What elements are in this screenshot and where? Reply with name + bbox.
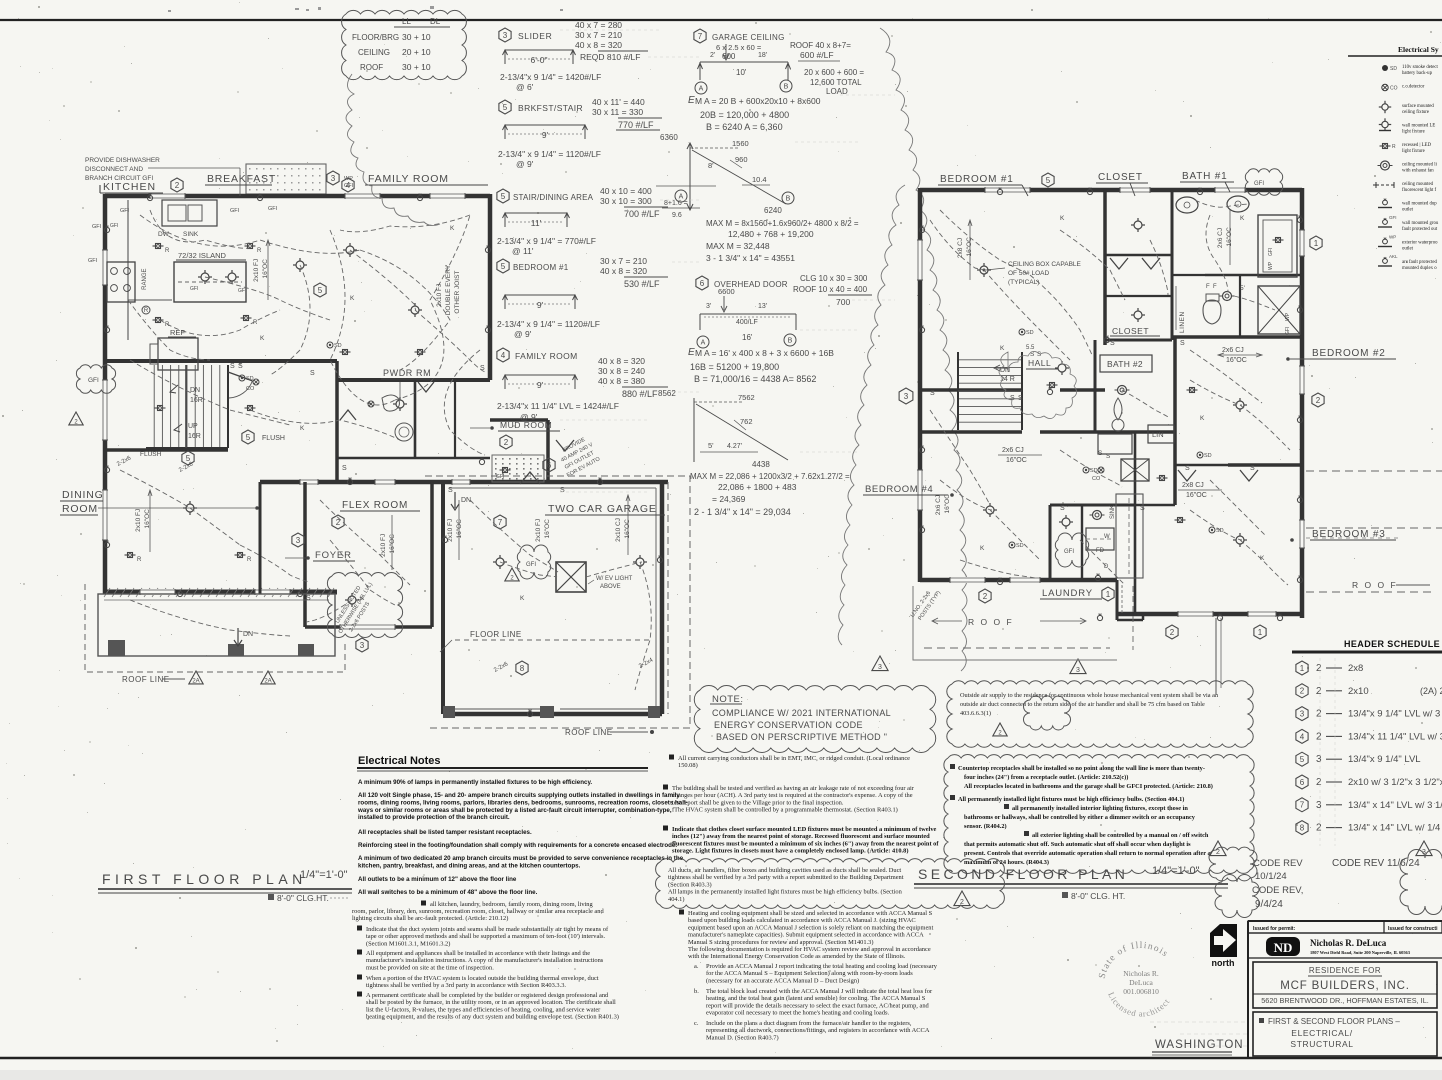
laundry closet dashed — [1116, 494, 1143, 578]
svg-text:Nicholas R. DeLuca: Nicholas R. DeLuca — [1310, 938, 1387, 948]
svg-text:GFI: GFI — [496, 474, 504, 480]
code rev cloud small 1 — [1209, 847, 1257, 881]
svg-text:for the ACCA Manual S – Equipm: for the ACCA Manual S – Equipment Select… — [706, 970, 913, 977]
svg-text:16"OC: 16"OC — [1226, 357, 1247, 364]
svg-text:BREAKFAST: BREAKFAST — [207, 173, 276, 185]
svg-text:LAUNDRY: LAUNDRY — [1042, 588, 1093, 599]
svg-text:All ducts, air handlers, filte: All ducts, air handlers, filter boxes an… — [668, 867, 901, 874]
svg-text:40 x 11' = 440: 40 x 11' = 440 — [592, 97, 645, 107]
svg-text:880 #/LF: 880 #/LF — [622, 389, 658, 399]
elec note L8 — [421, 901, 426, 906]
svg-text:@ 11': @ 11' — [512, 246, 534, 256]
svg-text:HEADER SCHEDULE: HEADER SCHEDULE — [1344, 639, 1440, 649]
title block outer frame — [1247, 921, 1249, 1058]
svg-text:ENERGY CONSERVATION CODE: ENERGY CONSERVATION CODE — [714, 720, 863, 730]
svg-text:2: 2 — [1170, 628, 1175, 637]
cloud code rev right — [1400, 850, 1442, 915]
svg-text:BEDROOM #1: BEDROOM #1 — [940, 174, 1014, 185]
svg-text:A permanent certificate shall: A permanent certificate shall be complet… — [366, 992, 609, 999]
extra wires second floor — [940, 210, 1030, 275]
svg-text:BEDROOM #1: BEDROOM #1 — [513, 263, 569, 272]
bath1 joist note — [1217, 227, 1233, 248]
laundry fixtures — [1093, 511, 1102, 520]
svg-text:6: 6 — [547, 461, 552, 470]
elec note R2 — [663, 785, 668, 790]
svg-text:1/4"=1'-0": 1/4"=1'-0" — [1152, 865, 1200, 877]
svg-text:shall be posted by the furnace: shall be posted by the furnace, in the u… — [366, 999, 616, 1006]
second floor: outer left wall — [918, 188, 923, 582]
legend symbol: ceiling mounted — [1376, 184, 1394, 186]
svg-text:3: 3 — [331, 174, 336, 183]
hex 2 right — [1312, 393, 1324, 407]
svg-text:4: 4 — [346, 181, 351, 190]
sd co symbols near stairs — [239, 375, 245, 381]
svg-text:light fixture: light fixture — [1402, 130, 1425, 135]
svg-text:All 120 volt Single phase, 15-: All 120 volt Single phase, 15- and 20- a… — [358, 792, 680, 799]
svg-text:All receptacles shall be liste: All receptacles shall be listed tamper r… — [358, 829, 532, 836]
first floor: stair lower wall — [105, 448, 228, 452]
svg-text:GFI: GFI — [526, 562, 536, 568]
svg-text:6'-0": 6'-0" — [531, 55, 548, 65]
svg-text:WP: WP — [1285, 312, 1291, 321]
svg-text:8: 8 — [1300, 823, 1305, 832]
svg-text:S: S — [1010, 395, 1015, 402]
north arrow block — [1210, 924, 1237, 957]
hex 2 mud room — [500, 435, 512, 449]
svg-text:6600: 6600 — [718, 287, 735, 296]
svg-text:CO: CO — [1092, 476, 1101, 482]
svg-text:CEILING BOX CAPABLE: CEILING BOX CAPABLE — [1008, 261, 1082, 268]
svg-text:Countertop receptacles shall b: Countertop receptacles shall be installe… — [958, 765, 1205, 772]
svg-text:DOUBLE EVERY: DOUBLE EVERY — [445, 264, 452, 315]
svg-text:4438: 4438 — [752, 460, 770, 469]
svg-text:2: 2 — [983, 592, 988, 601]
legend symbol: wall mounted grou — [1383, 220, 1388, 225]
first floor: foyer/flex west wall — [335, 361, 339, 482]
hall fixture — [1058, 364, 1066, 372]
svg-text:GFI: GFI — [88, 377, 99, 384]
legend symbol: recessed | LED — [1383, 144, 1388, 149]
svg-text:S: S — [1110, 340, 1115, 347]
svg-text:110v smoke detect: 110v smoke detect — [1402, 65, 1438, 70]
dining wires — [120, 470, 240, 545]
svg-text:E: E — [688, 95, 695, 106]
svg-text:B = 71,000/16 = 4438: B = 71,000/16 = 4438 A= 8562 — [694, 374, 816, 384]
svg-text:SD: SD — [246, 376, 254, 382]
svg-text:3: 3 — [1076, 667, 1080, 674]
svg-text:K: K — [260, 335, 265, 342]
svg-text:FLUSH: FLUSH — [140, 451, 162, 458]
svg-text:GFI: GFI — [230, 208, 240, 214]
svg-text:S: S — [1140, 505, 1145, 512]
svg-text:REQD 810 #/LF: REQD 810 #/LF — [580, 52, 640, 62]
ND logo — [1266, 937, 1300, 956]
svg-text:2: 2 — [1216, 849, 1220, 856]
svg-text:5: 5 — [501, 192, 506, 201]
svg-text:F: F — [1206, 284, 1210, 290]
svg-text:GFI: GFI — [1268, 248, 1274, 256]
kitchen island — [174, 262, 246, 302]
triangle 2 below countertop cloud — [993, 723, 1007, 736]
first floor: family room right wall — [488, 194, 493, 380]
second floor: stairs — [958, 359, 1022, 361]
svg-text:A: A — [701, 340, 706, 347]
first floor: garage east wall — [660, 482, 665, 714]
svg-text:ROOF 10 x 40 = 400: ROOF 10 x 40 = 400 — [793, 285, 868, 294]
svg-text:16R: 16R — [188, 433, 201, 440]
calc item 5 brkfst/stair — [499, 100, 511, 114]
hex 2 flex — [332, 515, 344, 529]
svg-text:2: 2 — [504, 438, 509, 447]
header schedule row 4 — [1296, 729, 1308, 743]
svg-text:S: S — [1185, 465, 1190, 472]
svg-text:5620 BRENTWOOD DR., HOFFMAN ES: 5620 BRENTWOOD DR., HOFFMAN ESTATES, IL. — [1261, 996, 1429, 1005]
svg-text:heating equipment, and the res: heating equipment, and the results of an… — [366, 1014, 619, 1021]
svg-text:30 x 11 = 330: 30 x 11 = 330 — [592, 107, 643, 117]
svg-text:FD: FD — [1096, 548, 1105, 554]
svg-text:K: K — [520, 595, 525, 602]
svg-text:Nicholas R.: Nicholas R. — [1123, 969, 1159, 978]
svg-text:surface mounted: surface mounted — [1402, 104, 1434, 109]
svg-text:ROOF LINE: ROOF LINE — [565, 728, 613, 737]
svg-text:DeLuca: DeLuca — [1129, 978, 1153, 987]
svg-text:SECOND FLOOR PLAN: SECOND FLOOR PLAN — [918, 866, 1128, 882]
kitchen joist note vertical — [253, 259, 269, 282]
svg-text:2x10 FJ: 2x10 FJ — [380, 534, 387, 557]
roof dashed bottom left — [913, 586, 1117, 660]
svg-text:6: 6 — [700, 279, 705, 288]
svg-text:c.: c. — [694, 1020, 699, 1027]
second floor: linen closet — [1172, 274, 1205, 276]
calc item 4 family room — [497, 348, 509, 362]
svg-text:2: 2 — [1316, 663, 1322, 674]
svg-text:5: 5 — [1046, 176, 1051, 185]
svg-text:SD: SD — [334, 343, 342, 349]
svg-text:Outside air supply to the resi: Outside air supply to the residence for … — [960, 692, 1219, 699]
second floor: laundry stair bump — [1116, 580, 1119, 620]
load table cloud — [342, 10, 467, 79]
flex wires — [320, 500, 410, 585]
svg-text:light fixture: light fixture — [1402, 149, 1425, 154]
second floor: bedroom2/3 divider — [1228, 463, 1302, 467]
svg-text:room, parlor, library, den, su: room, parlor, library, den, sunroom, rec… — [352, 908, 604, 915]
hex markers below plan — [979, 589, 991, 603]
svg-text:2-13/4" x 9 1/4" = 1120#/LF: 2-13/4" x 9 1/4" = 1120#/LF — [497, 319, 600, 329]
calc item 7 garage ceiling — [694, 29, 706, 43]
svg-text:2x8 CJ: 2x8 CJ — [957, 238, 964, 258]
svg-text:16"OC: 16"OC — [544, 519, 551, 539]
svg-text:1: 1 — [1106, 590, 1111, 599]
svg-text:S: S — [238, 363, 243, 370]
code rev cloud small 2 — [1215, 875, 1259, 918]
svg-text:5': 5' — [1240, 285, 1245, 292]
svg-text:All wall switches to be a mini: All wall switches to be a minimum of 48"… — [358, 889, 538, 896]
svg-text:GARAGE CEILING: GARAGE CEILING — [712, 33, 785, 42]
second floor: bottom wall left — [920, 578, 1117, 583]
svg-text:all exterior lighting shall be: all exterior lighting shall be controlle… — [1032, 832, 1209, 839]
svg-text:3: 3 — [1316, 800, 1322, 811]
bath1 sinks — [1176, 197, 1198, 213]
svg-text:2-13/4"x 9 1/4" = 1420#/LF: 2-13/4"x 9 1/4" = 1420#/LF — [500, 72, 601, 82]
svg-text:CEILING: CEILING — [358, 48, 390, 57]
svg-text:ROOM: ROOM — [62, 503, 98, 515]
svg-text:7: 7 — [1300, 801, 1305, 810]
svg-text:30 + 10: 30 + 10 — [402, 32, 431, 42]
svg-text:lighting circuits shall be arc: lighting circuits shall be arc-fault pro… — [352, 915, 508, 922]
svg-text:all permanently installed inte: all permanently installed interior light… — [1012, 805, 1188, 812]
family room ceiling fixtures — [296, 261, 304, 269]
svg-text:BATH #1: BATH #1 — [1182, 171, 1227, 182]
elec note L9 — [357, 926, 362, 931]
svg-text:Heating and cooling equipment: Heating and cooling equipment shall be s… — [688, 910, 933, 917]
second floor: outer top wall — [920, 188, 1302, 193]
svg-text:installed to provide protectio: installed to provide protection of the b… — [358, 814, 510, 821]
svg-text:BATH #2: BATH #2 — [1107, 359, 1143, 369]
elec note L10 — [357, 950, 362, 955]
garage floor line dashed — [455, 639, 650, 641]
svg-text:3: 3 — [904, 392, 909, 401]
svg-text:3': 3' — [706, 303, 711, 310]
svg-text:DINING: DINING — [62, 489, 104, 501]
svg-text:R: R — [165, 248, 170, 254]
porch post 2 — [228, 644, 244, 656]
svg-text:CODE REV: CODE REV — [1253, 858, 1303, 869]
svg-text:BEDROOM #4: BEDROOM #4 — [865, 484, 933, 495]
bath1 shower xbox — [1258, 286, 1300, 334]
svg-text:S: S — [480, 365, 485, 372]
svg-text:RANGE: RANGE — [142, 268, 148, 289]
svg-text:RESIDENCE FOR: RESIDENCE FOR — [1309, 966, 1381, 975]
cloud tail below load table — [346, 74, 440, 226]
legend symbol: wall mounted LE — [1382, 121, 1388, 127]
svg-text:ABOVE: ABOVE — [600, 584, 621, 590]
svg-text:6360: 6360 — [660, 133, 678, 142]
svg-text:rooms, dining rooms, living ro: rooms, dining rooms, living rooms, parlo… — [358, 799, 688, 806]
svg-text:bathrooms or hallways, shall b: bathrooms or hallways, shall be controll… — [964, 814, 1196, 821]
first floor: garage west wall — [441, 482, 445, 714]
svg-text:3: 3 — [296, 536, 301, 545]
svg-text:tightness shall be verified by: tightness shall be verified by a 3rd par… — [366, 982, 566, 989]
svg-text:that permits automatic shut of: that permits automatic shut off. Such au… — [964, 841, 1191, 848]
svg-text:four inches (24") from a recep: four inches (24") from a receptacle outl… — [964, 774, 1128, 781]
svg-text:ceiling mounted: ceiling mounted — [1402, 182, 1434, 187]
svg-text:b.: b. — [694, 988, 699, 995]
svg-text:2-13/4" x 9 1/4" = 1120#/LF: 2-13/4" x 9 1/4" = 1120#/LF — [498, 149, 601, 159]
bath1 wires — [1195, 200, 1250, 207]
svg-text:S: S — [560, 487, 565, 494]
svg-text:BRKFST/STAIR: BRKFST/STAIR — [518, 103, 583, 113]
mud room door wedge — [556, 440, 574, 451]
calc item 3 slider — [499, 28, 511, 42]
svg-text:fThe HVAC system shall be cont: fThe HVAC system shall be controlled by … — [672, 807, 898, 814]
svg-text:2x10 FJ: 2x10 FJ — [535, 519, 542, 542]
triangle 2 below second floor title — [954, 891, 970, 906]
svg-text:40 x 10 = 400: 40 x 10 = 400 — [600, 186, 652, 196]
svg-text:10/1/24: 10/1/24 — [1255, 871, 1287, 882]
svg-text:SD: SD — [1026, 330, 1034, 336]
svg-text:2x10: 2x10 — [1348, 686, 1369, 697]
svg-text:WP: WP — [1389, 235, 1396, 240]
hex 3 marker breakfast — [327, 171, 339, 185]
svg-text:WASHINGTON: WASHINGTON — [1155, 1039, 1244, 1051]
svg-text:recessed | LED: recessed | LED — [1402, 143, 1431, 148]
svg-text:tape or other approved methods: tape or other approved methods and shall… — [366, 933, 606, 940]
svg-text:1: 1 — [1258, 628, 1263, 637]
svg-text:8562: 8562 — [658, 389, 676, 398]
svg-text:1560: 1560 — [732, 139, 749, 148]
svg-text:@ 9': @ 9' — [516, 159, 534, 169]
svg-text:S: S — [448, 487, 453, 494]
svg-text:S: S — [342, 465, 347, 472]
svg-text:3: 3 — [1316, 754, 1322, 765]
svg-text:@ 6': @ 6' — [516, 82, 534, 92]
bath2 wires — [1122, 390, 1170, 418]
svg-text:10.4: 10.4 — [752, 175, 767, 184]
svg-text:GFI: GFI — [110, 223, 118, 229]
leader line to note below — [1215, 618, 1217, 695]
legend symbol: c.o.detector — [1382, 84, 1388, 90]
svg-text:960: 960 — [735, 155, 748, 164]
svg-text:based upon building loads calc: based upon building loads calculated in … — [688, 917, 916, 924]
svg-text:400/LF: 400/LF — [736, 319, 758, 326]
svg-text:2: 2 — [1300, 687, 1305, 696]
svg-text:(Section M1601.3.1, M1601.3.2): (Section M1601.3.1, M1601.3.2) — [366, 940, 450, 947]
svg-text:SD: SD — [1216, 528, 1224, 534]
extra outlet symbols first floor — [104, 227, 109, 232]
svg-text:2x8 CJ: 2x8 CJ — [1182, 482, 1204, 489]
svg-text:K: K — [1240, 215, 1245, 222]
svg-text:2x6 CJ: 2x6 CJ — [935, 495, 942, 515]
svg-text:GFI: GFI — [190, 286, 198, 292]
hex 3 left of second floor — [899, 388, 913, 404]
svg-text:1807 West Diehl Road, Suite 20: 1807 West Diehl Road, Suite 200 Napervil… — [1310, 950, 1411, 955]
svg-text:2x10 CJ: 2x10 CJ — [615, 518, 622, 542]
dining extra — [128, 553, 133, 558]
svg-text:with exhaust fan: with exhaust fan — [1402, 169, 1434, 174]
svg-text:OTHER JOIST: OTHER JOIST — [454, 271, 461, 314]
first floor: powder room top wall — [337, 378, 490, 382]
svg-text:evaporator coil necessary to m: evaporator coil necessary to meet the ho… — [706, 1010, 889, 1017]
svg-text:UP: UP — [188, 423, 198, 430]
bath1 recessed — [1276, 238, 1281, 243]
svg-text:R: R — [144, 308, 149, 314]
svg-text:9.6: 9.6 — [672, 212, 682, 219]
svg-text:K: K — [1200, 415, 1205, 422]
svg-text:GFI: GFI — [88, 258, 98, 264]
svg-text:DN: DN — [190, 387, 200, 394]
header schedule row 8 — [1296, 821, 1308, 835]
svg-text:PROVIDE DISHWASHER: PROVIDE DISHWASHER — [85, 157, 160, 164]
svg-text:S: S — [1250, 465, 1255, 472]
svg-text:GFI: GFI — [268, 206, 278, 212]
hex 5 marker — [1042, 173, 1054, 187]
garage joist notes — [447, 519, 463, 542]
svg-text:2: 2 — [1316, 777, 1322, 788]
svg-text:c.o.detector: c.o.detector — [1402, 85, 1425, 90]
svg-text:fault protected out: fault protected out — [1402, 227, 1438, 232]
svg-text:B: B — [784, 84, 789, 91]
svg-text:DN: DN — [461, 497, 471, 504]
svg-text:outlet: outlet — [1402, 208, 1414, 213]
legend symbol: 110v smoke detect — [1382, 65, 1388, 71]
svg-text:13/4" x 14" LVL w/ 1/4: 13/4" x 14" LVL w/ 1/4 — [1348, 823, 1440, 834]
second floor: closet walls top — [1105, 254, 1172, 257]
svg-text:R O O F: R O O F — [968, 617, 1014, 627]
lin label — [1148, 425, 1174, 443]
svg-text:All equipment and appliances s: All equipment and appliances shall be in… — [366, 950, 590, 957]
first floor: breakfast deck hatched area — [246, 164, 326, 194]
garage triangle 2 — [505, 568, 519, 581]
svg-text:BEDROOM #2: BEDROOM #2 — [1312, 348, 1386, 359]
svg-text:= 24,369: = 24,369 — [712, 494, 746, 504]
svg-text:FAMILY ROOM: FAMILY ROOM — [515, 351, 578, 361]
svg-text:DL: DL — [430, 17, 441, 26]
svg-text:CLOSET: CLOSET — [1098, 172, 1143, 183]
svg-text:MAX M = 22,086 + 1200x3/2 + 7.: MAX M = 22,086 + 1200x3/2 + 7.62x1.27/2 … — [690, 472, 850, 481]
svg-text:7: 7 — [698, 32, 703, 41]
svg-text:2: 2 — [1316, 686, 1322, 697]
svg-text:(2A) 2-2x12: (2A) 2-2x12 — [1420, 686, 1442, 696]
svg-text:Issued for constructi: Issued for constructi — [1388, 926, 1438, 932]
svg-text:GFI: GFI — [1254, 181, 1264, 187]
svg-text:3: 3 — [360, 641, 365, 650]
ruled guide lines (faint) — [560, 29, 660, 31]
bedroom1 joist note — [957, 237, 973, 258]
svg-text:representing all ductwork, con: representing all ductwork, connections/f… — [706, 1027, 930, 1034]
svg-text:wall mounted dup: wall mounted dup — [1402, 202, 1437, 207]
svg-text:battery back-up: battery back-up — [1402, 71, 1433, 76]
svg-text:6 x 2.5 x 60 =: 6 x 2.5 x 60 = — [716, 43, 762, 52]
svg-text:GFI: GFI — [1064, 549, 1074, 555]
svg-text:E: E — [688, 347, 695, 358]
flex fixtures — [348, 596, 356, 604]
svg-text:7: 7 — [498, 518, 503, 527]
svg-text:R: R — [1392, 144, 1396, 150]
first floor: mud room walls — [490, 418, 548, 422]
svg-text:All outlets to be a minimum of: All outlets to be a minimum of 12" above… — [358, 876, 517, 883]
first floor: outer top wall — [105, 194, 490, 199]
svg-text:16"OC: 16"OC — [456, 519, 463, 539]
svg-text:2x6 CJ: 2x6 CJ — [1002, 447, 1024, 454]
svg-text:All receptacles located in bat: All receptacles located in bathrooms and… — [964, 783, 1213, 790]
svg-text:001.006810: 001.006810 — [1123, 987, 1159, 996]
svg-text:(necessary for an accurate ACC: (necessary for an accurate ACCA Manual D… — [706, 977, 859, 984]
extra outlets second floor — [919, 227, 924, 232]
svg-text:40 x 8 = 320: 40 x 8 = 320 — [600, 266, 647, 276]
first floor: garage south wall with door openings — [443, 712, 662, 717]
svg-text:mounted duplex o: mounted duplex o — [1402, 266, 1437, 271]
svg-text:R O O F: R O O F — [1352, 580, 1398, 590]
svg-text:SD: SD — [1204, 453, 1212, 459]
svg-text:K: K — [1260, 555, 1265, 562]
svg-text:CODE REV 11/6/24: CODE REV 11/6/24 — [1332, 858, 1420, 869]
svg-text:CODE REV,: CODE REV, — [1252, 885, 1303, 896]
svg-text:W: W — [1104, 534, 1110, 540]
legend symbol: surface mounted — [1382, 104, 1388, 110]
svg-text:Electrical Notes: Electrical Notes — [358, 755, 441, 767]
gfi cloud bath1 — [1245, 169, 1282, 196]
svg-text:13/4"x 9 1/4" LVL w/ 3 1/2: 13/4"x 9 1/4" LVL w/ 3 1/2 — [1348, 709, 1442, 720]
header schedule row 2 — [1296, 684, 1308, 698]
svg-text:test report shall be given to: test report shall be given to the Villag… — [672, 799, 844, 806]
bedroom4 fixtures — [986, 506, 994, 514]
svg-text:22,086 + 1800 + 483: 22,086 + 1800 + 483 — [718, 482, 797, 492]
faint lines left of title box — [1150, 1021, 1248, 1023]
svg-text:arc fault protected: arc fault protected — [1402, 260, 1437, 265]
first floor: main south wall (foyer/flex/garage top) — [260, 480, 668, 485]
svg-text:Issued for permit:: Issued for permit: — [1253, 926, 1296, 932]
svg-text:fluorescent light f: fluorescent light f — [1402, 188, 1437, 193]
